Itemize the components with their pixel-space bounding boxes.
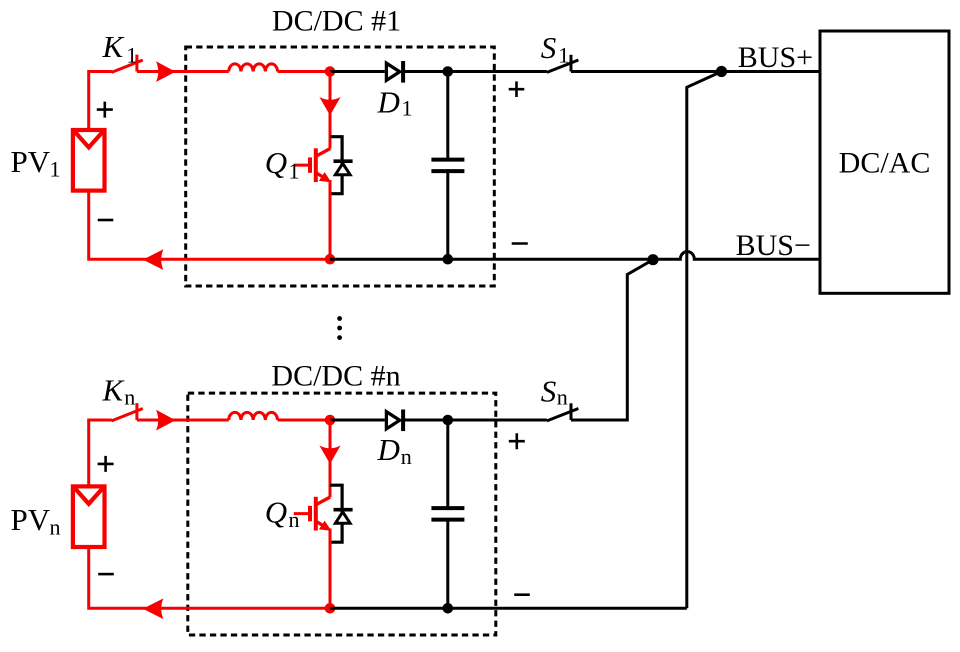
svg-text:D: D (377, 432, 400, 467)
wire PVn negative return (89, 547, 330, 608)
wire PV1 positive lead (89, 72, 112, 131)
minus label PVn (98, 573, 114, 576)
switch K1 (112, 55, 143, 73)
svg-text:1: 1 (126, 42, 137, 67)
vertical ellipsis between converters (337, 316, 342, 340)
transistor Qn IGBT (294, 497, 330, 531)
transistor Q1 IGBT (294, 148, 330, 182)
plus label PV1 (97, 102, 113, 118)
svg-text:PV: PV (11, 502, 51, 537)
node capacitor C1 top dot (443, 66, 454, 77)
diode Dn (386, 410, 403, 432)
PV source PV1 (73, 130, 105, 191)
node A1 junction dot (325, 66, 336, 77)
svg-text:BUS+: BUS+ (738, 41, 813, 74)
freewheel diode loop Qn (330, 485, 342, 542)
wire PV1 negative return (89, 191, 330, 260)
minus label PV1 (98, 219, 114, 222)
switch S1 (547, 55, 579, 73)
node capacitor Cn bottom dot (443, 603, 454, 614)
capacitor Cn (431, 508, 464, 519)
svg-text:PV: PV (11, 144, 51, 179)
wire node A1 down to IGBT collector (329, 72, 332, 149)
minus label output n (514, 593, 530, 596)
svg-text:n: n (557, 385, 568, 410)
wire inductor to node A1 (278, 70, 330, 73)
label D1 (377, 85, 413, 121)
svg-text:Q: Q (265, 145, 287, 180)
label Kn (102, 373, 136, 410)
inductor Ln (229, 412, 278, 420)
wire BUS minus down to converter n minus (571, 260, 653, 420)
wire PVn positive lead (89, 420, 112, 486)
svg-text:BUS−: BUS− (736, 229, 811, 262)
svg-text:DC/DC #1: DC/DC #1 (272, 5, 401, 38)
node BUS plus dot (716, 66, 727, 77)
arrow inductor current down n (319, 446, 340, 464)
svg-text:1: 1 (289, 159, 300, 184)
svg-text:1: 1 (558, 42, 569, 67)
label Dn (377, 432, 412, 469)
diode D1 (386, 61, 403, 83)
wire S1 to BUS plus (571, 70, 820, 73)
node BUS minus dot (647, 254, 658, 265)
node Cn junction dot (325, 603, 336, 614)
arrow return current n (143, 598, 164, 619)
node capacitor C1 bottom dot (443, 254, 454, 265)
svg-text:1: 1 (402, 96, 413, 121)
svg-text:K: K (102, 373, 126, 408)
wire Kn to inductor (137, 419, 229, 422)
arrow current into DC/DC #n (156, 410, 176, 431)
label Qn (265, 495, 300, 532)
capacitor C1 bottom lead (446, 171, 449, 259)
converter DC/DC #1 dashed box (186, 47, 495, 286)
plus label output 1 (509, 81, 525, 97)
svg-text:n: n (289, 507, 300, 532)
wire node An down to IGBT collector (329, 420, 332, 497)
svg-text:K: K (102, 29, 126, 64)
arrow current into DC/DC #1 (156, 61, 176, 82)
wire inductor to node An (278, 419, 330, 422)
svg-text:n: n (401, 444, 412, 469)
label S1 (541, 30, 570, 67)
arrow Q1 emitter (319, 172, 331, 182)
node An junction dot (325, 415, 336, 426)
freewheel diode Q1 (334, 161, 353, 175)
wire node Cn to BUS plus riser (330, 607, 687, 610)
capacitor Cn bottom lead (446, 520, 449, 609)
wire diode Dn to switch Sn (403, 419, 547, 422)
wire K1 to inductor (137, 70, 229, 73)
inverter DC/AC box (820, 31, 949, 293)
converter DC/DC #n dashed box (188, 393, 496, 635)
node C1 junction dot (325, 254, 336, 265)
svg-text:D: D (377, 85, 400, 120)
minus label output 1 (512, 242, 528, 245)
svg-text:S: S (541, 30, 557, 65)
svg-text:n: n (124, 385, 135, 410)
arrow inductor current down (319, 97, 340, 115)
svg-text:DC/DC #n: DC/DC #n (271, 360, 400, 393)
wire Qn emitter to node Cn (329, 529, 332, 609)
wire node C1 to BUS minus (330, 252, 820, 260)
svg-text:Q: Q (265, 495, 287, 530)
PV source PVn (73, 486, 105, 547)
svg-text:n: n (50, 515, 61, 540)
wire BUS plus down to Sn branch (687, 72, 722, 609)
svg-text:DC/AC: DC/AC (839, 147, 931, 180)
capacitor C1 top lead (446, 72, 449, 160)
plus label PVn (98, 456, 114, 472)
svg-text:S: S (541, 374, 557, 409)
arrow return current (143, 249, 164, 270)
label PV1 (11, 144, 61, 182)
wire diode D1 to node B1 (403, 70, 547, 73)
label Q1 (265, 145, 300, 183)
arrow Qn emitter (319, 521, 331, 531)
wire node An to diode Dn (330, 419, 385, 422)
capacitor C1 (431, 160, 464, 172)
wire node A1 to diode D1 (330, 70, 385, 73)
wire Q1 emitter to node C1 (329, 180, 332, 259)
label K1 (102, 29, 138, 67)
inductor L1 (229, 64, 278, 72)
node capacitor Cn top dot (443, 415, 454, 426)
switch Kn (112, 403, 143, 421)
capacitor Cn top lead (446, 420, 449, 508)
label PVn (11, 502, 61, 540)
freewheel diode loop Q1 (330, 137, 342, 194)
svg-text:1: 1 (50, 157, 61, 182)
switch Sn (547, 403, 579, 421)
freewheel diode Qn (334, 510, 353, 524)
label Sn (541, 374, 568, 410)
plus label output n (509, 433, 525, 449)
